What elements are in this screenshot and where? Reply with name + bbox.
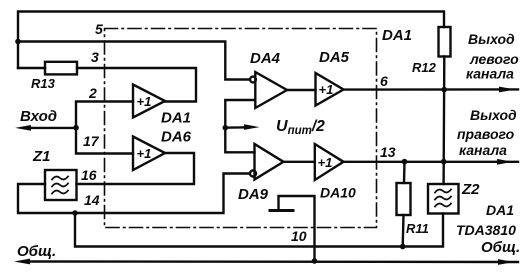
svg-text:Выход: Выход (468, 31, 515, 47)
op-amp DA1.2 buffer (133, 137, 165, 171)
wire DA4 to DA5 (287, 89, 316, 91)
wire chassis and pin10 (279, 196, 315, 261)
wire Z1 left lead down to common (18, 174, 248, 214)
svg-text:3: 3 (91, 49, 99, 65)
wire Upit/2 bus (225, 100, 255, 152)
pin inverting circle DA9 (250, 171, 256, 177)
node R11 bottom junction (400, 244, 406, 250)
wire R12 bottom to Z2 top (442, 57, 445, 185)
op-amp DA5 (316, 73, 344, 106)
svg-text:DA4: DA4 (250, 50, 281, 67)
svg-text:13: 13 (380, 144, 396, 160)
svg-text:+1: +1 (319, 82, 334, 97)
svg-text:DA1: DA1 (486, 202, 514, 218)
svg-text:10: 10 (291, 228, 307, 244)
svg-text:R11: R11 (406, 221, 429, 236)
node input junction (73, 125, 79, 131)
svg-text:6: 6 (380, 73, 388, 89)
svg-text:Общ.: Общ. (481, 239, 520, 256)
svg-text:17: 17 (83, 133, 100, 149)
wire R11 bottom lead (402, 215, 405, 247)
svg-text:Вход: Вход (20, 108, 57, 125)
svg-text:канала: канала (466, 66, 514, 82)
node junction at left rail (15, 39, 21, 45)
svg-text:16: 16 (81, 167, 97, 183)
op-amp DA1.1 buffer (133, 85, 165, 118)
svg-text:канала: канала (459, 142, 507, 158)
wire input stub (26, 127, 76, 129)
svg-text:R12: R12 (412, 60, 437, 75)
pin inverting circle DA4 (250, 77, 256, 83)
svg-text:5: 5 (95, 21, 103, 37)
wire common return to R11/Z2 bottoms (75, 213, 443, 247)
op-amp DA10 (315, 144, 344, 180)
op-amp DA4 (255, 72, 287, 108)
svg-text:+1: +1 (137, 146, 152, 161)
svg-text:+1: +1 (137, 94, 152, 109)
svg-text:TDA3810: TDA3810 (456, 222, 516, 238)
wire top feedback from left rail to R12 top (18, 12, 444, 69)
filter Z2 (428, 184, 459, 214)
svg-text:Z1: Z1 (32, 148, 51, 165)
wire common bottom rail (26, 260, 518, 263)
wire Upit/2 arrow stub (225, 126, 248, 129)
node R11 top junction (402, 159, 408, 165)
svg-text:+1: +1 (318, 155, 333, 170)
filter Z1 (45, 170, 77, 200)
wire pin2 / pin17 input branch (76, 102, 133, 154)
svg-text:Общ.: Общ. (17, 243, 56, 260)
svg-text:14: 14 (84, 192, 100, 208)
node Upit junction (223, 125, 229, 131)
wire right channel output (344, 161, 519, 163)
svg-text:Выход: Выход (470, 107, 517, 123)
svg-text:правого: правого (457, 126, 515, 142)
svg-text:2: 2 (88, 85, 97, 101)
svg-text:DA6: DA6 (161, 129, 192, 146)
svg-text:DA5: DA5 (319, 49, 350, 66)
node common junction (72, 210, 78, 216)
wire left channel output (344, 88, 519, 91)
wire DA9 to DA10 (284, 161, 315, 163)
IC outline DA1 (dash-dot box) (105, 29, 377, 228)
wire pin5 branch to DA4 upper input (18, 42, 249, 80)
svg-text:R13: R13 (31, 76, 56, 91)
svg-text:Z2: Z2 (461, 181, 480, 198)
node pin10 junction (312, 258, 318, 264)
resistor R13 (45, 62, 77, 75)
svg-text:DA9: DA9 (238, 186, 269, 203)
node Z2 top junction (441, 159, 447, 165)
op-amp DA9 (255, 144, 284, 180)
resistor R11 (397, 183, 411, 215)
svg-text:DA1: DA1 (382, 27, 412, 44)
resistor R12 (439, 27, 451, 57)
node input arrow (15, 125, 31, 131)
wire pin3 / buffer1 output loop (77, 68, 196, 102)
svg-text:DA10: DA10 (320, 185, 356, 201)
node R12 bottom junction (441, 87, 447, 93)
svg-text:DA1: DA1 (161, 110, 191, 127)
svg-text:Uпит/2: Uпит/2 (276, 118, 325, 137)
ground chassis bar (270, 209, 293, 212)
wire buffer2 output loop to Z1 (77, 153, 195, 184)
wire R11 top lead (403, 162, 406, 183)
wire R13 left lead (18, 67, 45, 69)
